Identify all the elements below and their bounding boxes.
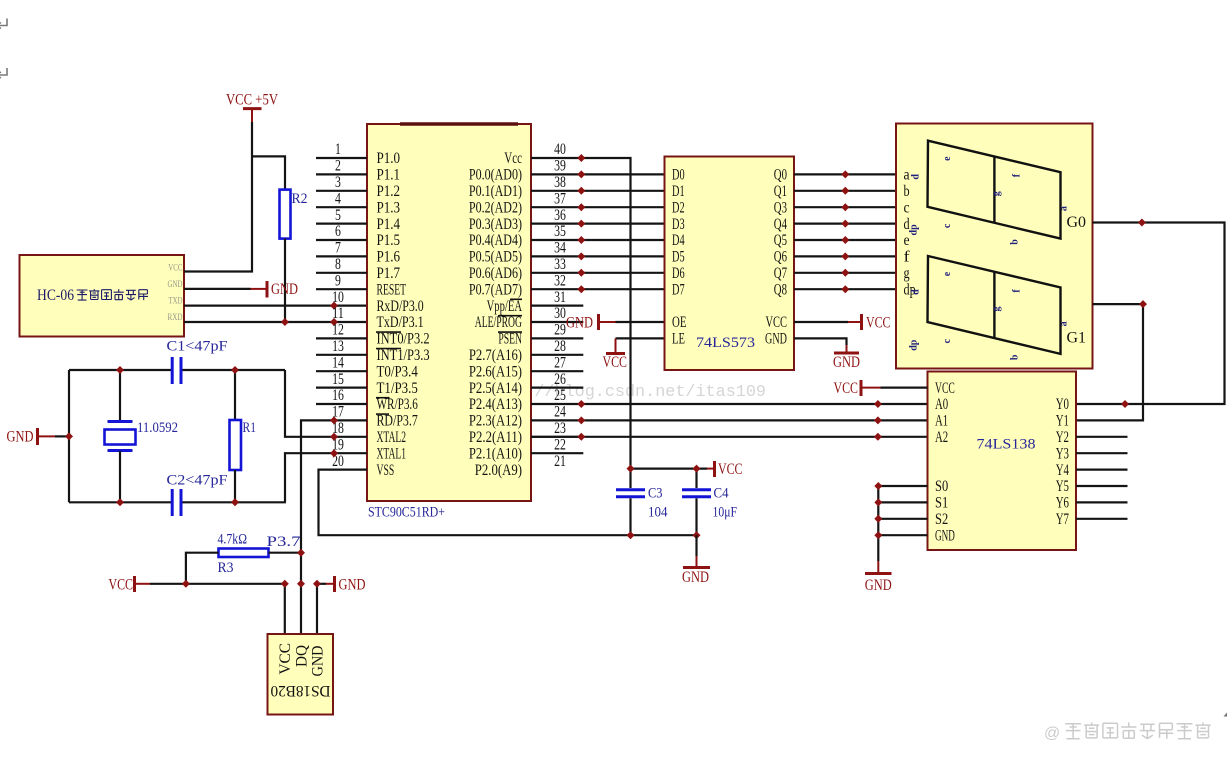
wire VCC rail to DS18B20 VCC pin [150,584,285,634]
label C4 [714,486,729,502]
svg-text:RD/P3.7: RD/P3.7 [377,413,418,430]
svg-text:G1: G1 [1067,329,1087,346]
junction dots C3 C4 top [627,465,701,473]
svg-text:Q5: Q5 [774,232,787,249]
74LS573 VCC GND pin names [765,314,787,347]
svg-text:C3: C3 [648,486,663,502]
svg-text:P2.0(A9): P2.0(A9) [475,462,522,479]
svg-text:31: 31 [554,289,566,306]
svg-text:c: c [904,199,910,216]
svg-text:4.7kΩ: 4.7kΩ [218,532,248,548]
wire HC-06 GND pin [184,288,251,290]
junction dot crystal gnd [65,432,73,440]
power port GND at crystal [7,428,56,446]
svg-text:D7: D7 [672,281,685,298]
svg-text:VCC: VCC [603,354,628,371]
svg-text:39: 39 [554,158,566,175]
svg-text:g: g [904,265,910,282]
wire R3 right to P3.7 net [269,552,302,554]
wire mcu pin20 VSS to ground rail [319,470,631,536]
power port GND at 74LS573 [833,353,860,371]
mcu right pin name texts [469,150,522,479]
wire mcu pin19 XTAL1 to crystal bottom rail [285,453,367,502]
decorative edge mark [1224,713,1227,717]
mcu right pin name overlines [498,299,522,332]
svg-text:P1.7: P1.7 [377,265,401,282]
wire HC-06 TXD to MCU pin10 [184,305,367,307]
wire mcu pin18 XTAL2 to crystal top rail [285,370,367,437]
svg-text:LE: LE [672,331,685,348]
latch U3 74LS573 box [665,157,795,371]
power port VCC at 74LS573 [794,314,891,331]
wire HC-06 RXD to MCU pin11 [184,321,367,323]
wire mcu pin23 to 74LS138 A2 [531,436,928,438]
svg-text:11.0592: 11.0592 [137,420,178,436]
74LS573 OE LE pin names [672,314,687,347]
junction dots P0 bus [577,170,585,293]
svg-text:32: 32 [554,272,566,289]
module HC-06 title text [37,287,148,304]
svg-text:28: 28 [554,338,566,355]
svg-text:P0.0(AD0): P0.0(AD0) [469,167,522,184]
svg-text:27: 27 [554,354,566,371]
svg-text:G0: G0 [1067,214,1087,231]
svg-text:C4: C4 [714,486,729,502]
svg-text:3: 3 [335,174,341,191]
wire G1 to Y1 [1076,304,1143,420]
resistor R3 [219,549,269,558]
svg-text:b: b [1010,354,1021,360]
svg-text:D5: D5 [672,249,685,266]
wire S0 S1 S2 GND tie lines [878,486,927,561]
svg-text:P1.2: P1.2 [377,183,401,200]
74LS138 left pin names [935,380,955,545]
power port VCC at 74LS138 [834,380,881,397]
svg-text:23: 23 [554,420,566,437]
svg-text:Q7: Q7 [774,265,787,282]
wire P0.0-P0.7 bus to 74LS573 D0-D7 [531,174,665,289]
svg-text:5: 5 [335,207,341,224]
svg-text:GND: GND [833,354,860,371]
svg-text:35: 35 [554,223,566,240]
sensor U2 DS18B20 box [268,634,334,715]
svg-text:Y0: Y0 [1056,396,1069,413]
mcu left pin name texts [377,150,430,479]
svg-text:P2.5(A14): P2.5(A14) [469,380,522,397]
svg-text:74LS573: 74LS573 [696,335,755,351]
svg-text:e: e [942,271,953,276]
capacitor C1 [172,357,181,384]
svg-text:GND: GND [566,314,593,331]
junction dots address lines 138 side [874,400,882,441]
wire mcu left pin stubs 1-9 12-16 [316,158,367,404]
svg-text:VCC: VCC [766,314,788,331]
svg-text:DQ: DQ [293,645,310,667]
svg-text:104: 104 [648,505,668,521]
svg-text:P2.4(A13): P2.4(A13) [469,396,522,413]
power port GND at 74LS573 OE [566,314,616,331]
svg-text:10μF: 10μF [713,505,738,521]
svg-text:P1.6: P1.6 [377,249,401,266]
junction dots RXD/TXD [281,302,338,326]
HC-06 pin label TXD [169,297,183,307]
junction dot DQ [297,580,305,588]
svg-text:OE: OE [672,314,687,331]
wire VCC port to 74LS138 VCC pin [881,387,928,389]
svg-text:D4: D4 [672,232,685,249]
svg-text:T1/P3.5: T1/P3.5 [377,380,418,397]
svg-text:WR/P3.6: WR/P3.6 [377,396,418,413]
power port GND below 74LS138 [865,561,892,594]
svg-text:GND: GND [168,280,183,290]
wire mcu pin17 RD/P3.7 to R3 and DS18B20 DQ [301,420,367,634]
svg-text:PSEN: PSEN [498,331,522,348]
power port GND at HC-06 [251,281,299,298]
label R3 [218,560,234,576]
svg-text:37: 37 [554,190,566,207]
DS18B20 pin label DQ [293,645,310,667]
wire crystal left vertical [68,370,70,502]
wire crystal bottom rail [69,501,286,503]
svg-text:Q1: Q1 [774,183,787,200]
wire R2 bottom to RXD net [284,239,286,322]
wire GND port to 74LS573 OE pin [616,321,665,323]
svg-text:P1.3: P1.3 [377,199,401,216]
net label P3.7 [267,534,302,550]
junction dot G1 net [1139,300,1147,308]
74LS138 right pin names [1056,396,1069,528]
svg-text:25: 25 [554,387,566,404]
watermark juejin badge [1044,722,1211,742]
svg-text:RxD/P3.0: RxD/P3.0 [377,298,424,315]
power port GND below C4 [682,535,710,586]
svg-text:RESET: RESET [377,281,407,298]
wire C3 to C4 bottom link [631,534,697,536]
svg-text:f: f [904,249,911,266]
wire VCC branch to R2 [252,156,285,189]
svg-text:P2.7(A16): P2.7(A16) [469,347,522,364]
label C2 value [167,473,228,489]
DS18B20 part name upside down [271,682,331,699]
wire mcu pin24 to 74LS138 A1 [531,419,928,421]
crystal Y1 11.0592MHz [105,370,136,502]
svg-text:Vcc: Vcc [504,150,522,167]
wire 74LS573 GND pin down [794,338,847,352]
svg-text:6: 6 [335,223,341,240]
svg-text:34: 34 [554,240,566,257]
capacitor C2 [172,489,181,516]
svg-text:Y5: Y5 [1056,478,1069,495]
svg-text:14: 14 [332,354,344,371]
svg-text:g: g [991,307,1002,312]
wire DS18B20 GND pin [317,584,326,634]
mcu left pin name overlines [376,332,401,414]
svg-text:S2: S2 [935,511,948,528]
wire C3 to C4 top link [631,468,708,470]
display segment pin names [904,167,916,299]
label C1 value [167,339,228,355]
capacitor C3 [616,469,645,536]
svg-text:g: g [991,191,1002,196]
svg-text:dp: dp [909,224,920,236]
svg-text:INT0/P3.2: INT0/P3.2 [377,331,430,348]
svg-text:VSS: VSS [377,462,395,479]
svg-text:D1: D1 [672,183,685,200]
power port GND at DS18B20 [326,576,366,593]
svg-text:P0.3(AD3): P0.3(AD3) [469,216,522,233]
svg-text:a: a [1059,206,1070,211]
mcu U1 STC90C51RD+ box [367,124,531,501]
svg-text:Y7: Y7 [1056,511,1069,528]
svg-text:36: 36 [554,207,566,224]
svg-text:Y2: Y2 [1056,429,1069,446]
svg-text:26: 26 [554,371,566,388]
svg-text:30: 30 [554,305,566,322]
svg-text:P0.6(AD6): P0.6(AD6) [469,265,522,282]
DS18B20 pin label GND [310,646,327,677]
svg-text:P0.1(AD1): P0.1(AD1) [469,183,522,200]
svg-text:TxD/P3.1: TxD/P3.1 [377,314,424,331]
junction dot DS GND [313,580,321,588]
power port VCC at 74LS573 LE [603,338,628,370]
power port VCC +5V [226,92,279,123]
svg-text:a: a [1059,321,1070,326]
svg-text:15: 15 [332,371,344,388]
svg-text:P1.4: P1.4 [377,216,401,233]
svg-text:S1: S1 [935,495,948,512]
svg-text:P3.7: P3.7 [267,534,302,550]
svg-text:INT1/P3.3: INT1/P3.3 [377,347,430,364]
label R1 [243,420,257,436]
svg-text:b: b [904,183,910,200]
svg-text:P1.1: P1.1 [377,167,401,184]
decorative return mark 2 [0,68,7,78]
junction dots Q bus [841,170,849,293]
svg-text:22: 22 [554,436,566,453]
svg-text:11: 11 [332,305,344,322]
svg-text:GND: GND [865,577,892,594]
svg-text:c: c [942,223,953,228]
svg-text:P2.1(A10): P2.1(A10) [469,445,522,462]
label C4 value 10uF [713,505,738,521]
svg-text:P0.2(AD2): P0.2(AD2) [469,199,522,216]
junction dots crystal rails [116,366,239,506]
svg-text:Q4: Q4 [774,216,787,233]
svg-text:D2: D2 [672,199,685,216]
svg-text:b: b [1010,239,1021,245]
svg-text:2: 2 [335,158,341,175]
display DS1 dual 7-segment box [896,124,1093,369]
svg-text:10: 10 [332,289,344,306]
junction dots C3 C4 bottom [627,531,701,539]
label STC90C51RD+ [368,505,445,521]
svg-text:D3: D3 [672,216,685,233]
svg-text:24: 24 [554,404,566,421]
svg-text:A0: A0 [935,396,948,413]
svg-text:d: d [910,174,921,180]
svg-text:Y3: Y3 [1056,445,1069,462]
svg-text:P1.0: P1.0 [377,150,401,167]
resistor R2 [280,190,291,239]
svg-text:R2: R2 [292,191,308,207]
junction dots address lines mcu side [577,400,585,441]
svg-text:HC-06: HC-06 [37,287,74,304]
wire G0 to Y0 [1076,223,1225,405]
wire mcu pin25 to 74LS138 A0 [531,403,928,405]
label C3 [648,486,663,502]
svg-text:XTAL2: XTAL2 [377,429,407,446]
svg-text:4: 4 [335,190,341,207]
module HC-06 bluetooth serial box [20,255,185,337]
label R2 [292,191,308,207]
svg-text:VCC: VCC [168,264,182,274]
svg-text:7: 7 [335,240,341,257]
HC-06 pin label RXD [168,313,183,323]
label 74LS573 [696,335,755,351]
svg-text:R3: R3 [218,560,234,576]
junction dots G0 net [1121,219,1146,409]
label G0 [1067,214,1087,231]
svg-text:40: 40 [554,141,566,158]
wire crystal top rail [69,369,285,371]
svg-text:Y4: Y4 [1056,462,1069,479]
svg-text:STC90C51RD+: STC90C51RD+ [368,505,445,521]
svg-text:RXD: RXD [168,313,183,323]
svg-text:C1<47pF: C1<47pF [167,339,228,355]
wire 74LS573 LE pin [616,337,665,339]
svg-text:VCC: VCC [109,576,134,593]
svg-text:TXD: TXD [169,297,183,307]
svg-text:DS18B20: DS18B20 [271,682,331,699]
svg-text:a: a [904,167,910,184]
74LS573 D pin names [672,167,685,299]
junction dots S tie [874,482,882,539]
svg-text:P0.5(AD5): P0.5(AD5) [469,249,522,266]
74LS573 Q pin names [774,167,787,299]
svg-text:D6: D6 [672,265,685,282]
svg-text:VCC: VCC [718,461,743,478]
capacitor C4 [682,469,711,536]
svg-text:VCC: VCC [834,380,859,397]
resistor R1 [230,370,242,502]
svg-text:e: e [942,156,953,161]
junction dot pin40 [577,154,585,162]
svg-text:GND: GND [310,646,327,677]
label crystal value [137,420,178,436]
svg-text:P0.4(AD4): P0.4(AD4) [469,232,522,249]
wire R3 left to VCC rail [186,553,219,584]
svg-text:ALE/PROG: ALE/PROG [475,314,522,331]
svg-text:dp: dp [909,339,920,351]
wire mcu pin30 ALE stub [531,321,583,323]
svg-text:XTAL1: XTAL1 [377,445,407,462]
mcu pin number texts [332,141,566,470]
svg-text:A1: A1 [935,413,948,430]
svg-text:@: @ [1044,725,1060,742]
wire mcu right short stubs pins 31 29 28 27 26 22 21 [531,306,583,454]
svg-text:A2: A2 [935,429,948,446]
svg-text:C2<47pF: C2<47pF [167,473,228,489]
watermark blog url [484,383,766,402]
svg-text:13: 13 [332,338,344,355]
wire Q0-Q8 bus to display [794,174,896,289]
HC-06 pin label VCC [168,264,182,274]
svg-text:12: 12 [332,322,344,339]
svg-text:P2.3(A12): P2.3(A12) [469,413,522,430]
svg-text:Y1: Y1 [1056,413,1069,430]
svg-text:VCC: VCC [935,380,955,397]
svg-text:8: 8 [335,256,341,273]
junction dot pin19 [330,449,338,457]
svg-text:VCC: VCC [277,643,294,675]
svg-text:GND: GND [682,569,709,586]
svg-text:P0.7(AD7): P0.7(AD7) [469,281,522,298]
svg-text:P2.2(A11): P2.2(A11) [469,429,522,446]
svg-text:16: 16 [332,387,344,404]
svg-text:VCC +5V: VCC +5V [226,92,279,109]
svg-text:Y6: Y6 [1056,495,1069,512]
wire Y2-Y7 stubs [1076,437,1128,519]
svg-text:21: 21 [554,453,566,470]
power port VCC at DS18B20 [109,576,151,593]
DS18B20 pin label VCC [277,643,294,675]
7-segment digit G1 [909,256,1070,360]
junction dot pin18 [330,433,338,441]
svg-text:P1.5: P1.5 [377,232,401,249]
junction dots VCC rail [182,580,289,588]
svg-text:Q0: Q0 [774,167,787,184]
svg-text:GND: GND [339,576,366,593]
svg-text:Q6: Q6 [774,249,787,266]
power port VCC at C4 [707,461,743,478]
svg-text:R1: R1 [243,420,257,436]
svg-text:S0: S0 [935,478,948,495]
svg-text:Q3: Q3 [774,199,787,216]
label C3 value 104 [648,505,668,521]
svg-text:c: c [942,338,953,343]
HC-06 pin label GND [168,280,183,290]
decoder U4 74LS138 box [928,372,1077,551]
wire GND to crystal loop [55,435,69,437]
svg-text:38: 38 [554,174,566,191]
svg-text:d: d [910,289,921,295]
svg-text:GND: GND [935,527,955,544]
svg-text:Vpp/EA: Vpp/EA [487,298,523,315]
svg-text:74LS138: 74LS138 [977,437,1036,453]
wire mcu pin40 Vcc down to C3 [531,158,631,469]
svg-text:33: 33 [554,256,566,273]
svg-text:VCC: VCC [866,314,891,331]
wire VCC+5V net vertical and HC-06 VCC pin [184,122,252,272]
junction dot R3/P3.7 [297,549,305,557]
junction dot pin17 [330,416,338,424]
svg-text:GND: GND [765,331,787,348]
svg-text:Q8: Q8 [774,281,787,298]
7-segment digit G0 [909,141,1070,245]
svg-text:29: 29 [554,322,566,339]
svg-text:P2.6(A15): P2.6(A15) [469,363,522,380]
svg-text:1: 1 [335,141,341,158]
label G1 [1067,329,1087,346]
svg-text:9: 9 [335,272,341,289]
label 74LS138 [977,437,1036,453]
label R3 value 4.7k [218,532,248,548]
svg-text:GND: GND [271,281,298,298]
decorative return mark 1 [0,19,7,29]
svg-text:GND: GND [7,429,34,446]
svg-text:T0/P3.4: T0/P3.4 [377,363,418,380]
svg-text:D0: D0 [672,167,685,184]
